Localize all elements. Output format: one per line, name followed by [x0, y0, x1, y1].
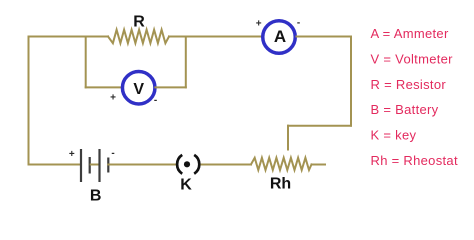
- svg-text:+: +: [110, 92, 116, 103]
- svg-text:A = Ammeter: A = Ammeter: [371, 26, 449, 41]
- ammeter U1 circle: [263, 21, 296, 54]
- wire battery inner link: [91, 164, 99, 166]
- battery B plate 2 short: [89, 157, 91, 174]
- svg-text:-: -: [154, 95, 157, 106]
- wire voltmeter branch right horizontal: [155, 86, 185, 88]
- wire horizontal to rheostat wiper: [288, 125, 351, 127]
- wire battery to key: [108, 164, 175, 166]
- svg-text:Rh: Rh: [270, 175, 291, 192]
- svg-text:Rh = Rheostat: Rh = Rheostat: [371, 153, 458, 168]
- svg-text:A: A: [274, 27, 286, 46]
- wire bottom-left to battery: [29, 164, 81, 166]
- wire left vertical: [28, 37, 30, 165]
- svg-text:R = Resistor: R = Resistor: [371, 77, 447, 92]
- battery B plate 1 long: [80, 149, 82, 182]
- svg-text:+: +: [69, 149, 75, 160]
- svg-text:B = Battery: B = Battery: [371, 102, 439, 117]
- wire top-left segment: [29, 36, 109, 38]
- svg-text:-: -: [297, 17, 300, 28]
- wire resistor to ammeter: [169, 36, 262, 38]
- svg-text:-: -: [111, 148, 114, 159]
- wire rheostat wiper drop: [287, 126, 289, 150]
- wire key to rheostat: [202, 164, 252, 166]
- voltmeter U2 circle: [122, 71, 155, 104]
- rheostat Rh zigzag: [251, 158, 312, 170]
- key K left contact arc: [177, 155, 182, 174]
- svg-text:B: B: [90, 188, 102, 205]
- resistor R1 zigzag: [108, 30, 169, 44]
- svg-text:V: V: [133, 81, 144, 98]
- svg-text:K: K: [180, 177, 192, 194]
- wire rheostat right stub: [312, 164, 326, 166]
- wire right vertical: [350, 37, 352, 126]
- svg-text:R: R: [133, 14, 145, 31]
- wire voltmeter branch right vertical: [185, 37, 187, 88]
- battery B plate 3 long: [98, 149, 100, 182]
- wire voltmeter branch left vertical: [85, 37, 87, 88]
- svg-text:K = key: K = key: [371, 128, 417, 143]
- svg-text:+: +: [256, 18, 262, 29]
- battery B plate 4 short: [107, 158, 109, 173]
- svg-text:V = Voltmeter: V = Voltmeter: [371, 52, 454, 67]
- key K right contact arc: [194, 155, 199, 174]
- wire voltmeter branch left horizontal: [86, 86, 122, 88]
- key K dot: [184, 161, 190, 167]
- wire ammeter to top-right corner: [297, 36, 352, 38]
